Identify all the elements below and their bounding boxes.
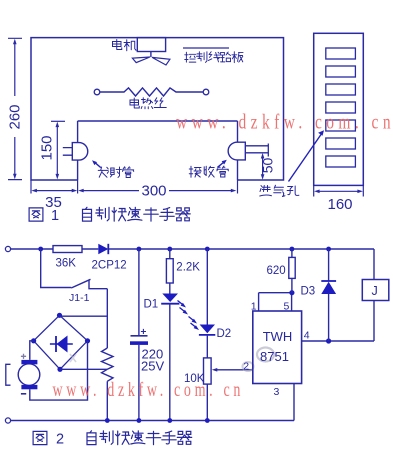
inner duct wall right	[237, 121, 239, 180]
bridge diode axis	[50, 343, 73, 345]
terminal input top	[5, 246, 10, 251]
svg-text:50: 50	[260, 158, 276, 174]
vent slot 2	[326, 66, 356, 77]
wire pot to bottom rail	[206, 384, 208, 420]
svg-text:2CP12: 2CP12	[92, 260, 127, 272]
light arrow 2	[180, 308, 186, 313]
emitter pointer arrow	[95, 162, 101, 167]
node bridge left	[31, 338, 36, 343]
heater element lower zigzag	[102, 369, 114, 381]
bridge rectifier edges	[34, 315, 88, 369]
vent slot 7	[326, 156, 356, 167]
wire	[169, 283, 171, 294]
svg-text:160: 160	[327, 196, 352, 213]
fan blade left	[132, 57, 150, 63]
node	[137, 418, 142, 423]
svg-text:620: 620	[267, 265, 286, 277]
emitter tube body	[72, 143, 87, 161]
heater element upper zigzag	[102, 348, 114, 369]
svg-text:8751: 8751	[260, 349, 289, 364]
wire D2 branch top	[206, 249, 208, 325]
vent slot 5	[326, 120, 356, 131]
wire relay to pin4 line	[373, 301, 375, 342]
dryer outer housing box	[31, 38, 284, 180]
relay contact J1-1	[71, 279, 90, 288]
capacitor C1 plate bottom	[130, 341, 148, 345]
wire motor plus to bridge left	[30, 341, 34, 360]
wire heater branch upper	[106, 289, 108, 348]
svg-text:2: 2	[243, 360, 249, 372]
motor body	[18, 364, 40, 386]
air vent panel	[314, 33, 364, 185]
svg-text:1: 1	[251, 301, 257, 313]
wire top rail corner to relay	[373, 249, 375, 280]
node	[137, 247, 142, 252]
wire 2.2K branch	[169, 249, 171, 259]
wire to switch	[41, 249, 71, 288]
node bridge right	[85, 338, 90, 343]
node	[290, 247, 295, 252]
LED D1 bar	[161, 303, 179, 305]
air inlet pointer arrow	[289, 135, 322, 182]
fan blade right	[152, 57, 170, 65]
svg-text:3: 3	[274, 386, 280, 398]
vent slot 3	[326, 84, 356, 95]
node	[38, 247, 43, 252]
svg-text:4: 4	[304, 330, 310, 342]
wire from switch	[89, 281, 107, 289]
wire D2 to pot	[206, 335, 208, 358]
svg-text:300: 300	[141, 183, 166, 200]
svg-text:J1-1: J1-1	[69, 292, 90, 304]
pot wiper wire to pin 2	[216, 369, 253, 371]
node	[205, 247, 210, 252]
pin 2 label	[243, 362, 254, 371]
node bridge top	[57, 313, 62, 318]
dimension 50	[262, 156, 264, 177]
dimension 300	[83, 190, 232, 192]
figure 1 caption	[29, 208, 43, 221]
diode D3 triangle	[321, 282, 336, 294]
bridge diode triangle	[57, 336, 68, 353]
wire capacitor branch top	[138, 249, 140, 336]
terminal input bottom	[5, 418, 10, 423]
label dianresi (heating wire)	[130, 98, 139, 108]
wire capacitor to bottom rail	[138, 345, 140, 421]
node bridge bottom	[57, 367, 62, 372]
emitter leads	[63, 148, 73, 156]
label dianji (motor)	[113, 40, 122, 50]
label jinqikong (air inlet)	[260, 186, 272, 197]
motor bracket	[6, 364, 11, 385]
node	[205, 418, 210, 423]
photodiode D2 bar	[199, 334, 215, 336]
light arrow 3	[189, 317, 195, 322]
heating element zigzag	[100, 88, 203, 96]
motor plus	[21, 354, 26, 359]
wire D3 branch top	[328, 249, 330, 281]
svg-text:25V: 25V	[141, 359, 164, 374]
diode 2CP12	[98, 244, 108, 254]
node pin5	[289, 290, 294, 295]
wire heater to bottom rail	[106, 381, 108, 420]
wire top rail right	[108, 248, 374, 250]
wire D1 to bottom rail	[169, 304, 171, 421]
svg-text:1: 1	[51, 208, 59, 224]
svg-text:J: J	[372, 284, 378, 298]
motor brush top	[21, 360, 37, 364]
node	[105, 418, 110, 423]
svg-text:D3: D3	[301, 286, 316, 298]
wire D3 to pin4 line	[328, 294, 330, 341]
node	[167, 247, 172, 252]
inner duct wall left	[77, 121, 79, 180]
wire	[82, 248, 98, 250]
svg-text:2: 2	[56, 432, 64, 448]
dimension 150	[51, 121, 65, 175]
receiver pointer arrow	[218, 162, 225, 167]
inner duct ceiling	[78, 120, 238, 122]
svg-text:2.2K: 2.2K	[176, 262, 200, 274]
dimension 35	[31, 180, 238, 194]
dimension 160	[314, 185, 364, 196]
fan stem	[150, 52, 152, 58]
vent slot 4	[326, 102, 356, 113]
pin 5 stub	[291, 293, 293, 311]
motor minus	[21, 393, 26, 395]
dimension 260	[8, 38, 22, 179]
node	[326, 247, 331, 252]
label jieshouguan (receiver tube)	[189, 166, 201, 177]
capacitor C1 plate top	[131, 335, 148, 337]
wire pin 4	[302, 340, 374, 342]
wire 620 to pin5	[291, 278, 293, 292]
svg-text:260: 260	[7, 104, 24, 129]
resistor R3 620	[289, 257, 295, 278]
svg-text:36K: 36K	[56, 258, 77, 270]
wire motor minus to bridge right	[30, 341, 88, 400]
receiver tube body	[228, 142, 245, 160]
wire bridge top to heater branch	[60, 315, 108, 317]
diode D3 bar	[321, 280, 336, 282]
motor brush bottom	[21, 385, 37, 389]
wire bridge bottom to heater tap	[60, 368, 107, 370]
heating element terminals	[94, 89, 100, 95]
vent slot 6	[326, 138, 356, 149]
resistor R2 2.2K	[166, 259, 173, 283]
wire pin 3 down	[293, 384, 295, 421]
node	[167, 418, 172, 423]
svg-text:150: 150	[39, 135, 56, 160]
wire bottom rail	[11, 420, 294, 422]
svg-text:www. dzkfw. com. cn: www. dzkfw. com. cn	[53, 379, 241, 401]
capacitor plus	[141, 329, 146, 334]
bridge diode bar	[55, 336, 57, 352]
label kongzhi xianlu ban (control board)	[185, 52, 196, 62]
IC U1 TWH8751	[253, 311, 302, 384]
label fasheguan (emitter tube)	[98, 167, 108, 177]
LED D1 triangle	[162, 294, 178, 303]
svg-text:D1: D1	[144, 299, 159, 311]
motor box	[137, 38, 165, 52]
svg-text:D2: D2	[217, 328, 232, 340]
control board line	[183, 47, 229, 49]
wire pin1 to pin5	[259, 292, 292, 294]
photodiode D2 triangle	[200, 325, 215, 334]
light arrow 1	[178, 301, 184, 306]
light arrow 4	[191, 323, 197, 328]
pin 1 stub	[258, 293, 260, 311]
wire top rail left	[11, 248, 53, 250]
svg-text:5: 5	[284, 301, 290, 313]
node pin4/D3	[326, 338, 331, 343]
potentiometer RP 10K	[204, 358, 212, 384]
receiver leads	[245, 144, 268, 157]
svg-text:TWH: TWH	[263, 329, 293, 344]
wire 620 branch	[291, 249, 293, 257]
svg-text:www. dzkfw. com. cn: www. dzkfw. com. cn	[176, 110, 391, 134]
resistor R1 36K	[53, 246, 82, 253]
relay coil J	[362, 280, 389, 301]
vent slot 1	[326, 48, 356, 59]
figure 2 caption	[33, 431, 47, 444]
